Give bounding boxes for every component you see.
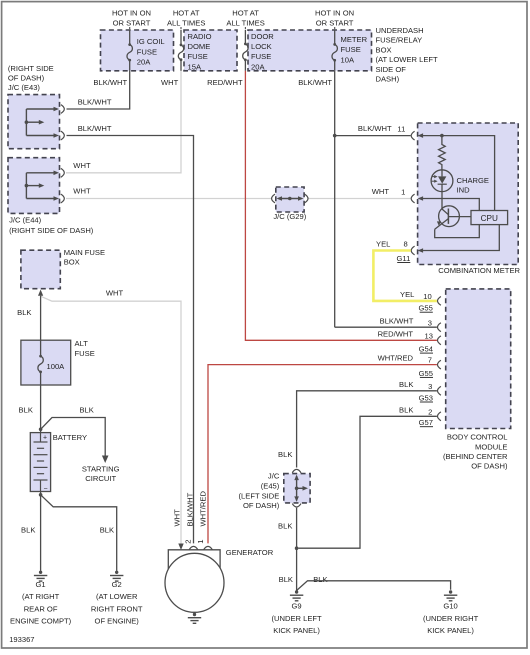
ground G1	[39, 571, 42, 574]
svg-text:G9: G9	[292, 602, 302, 611]
J/C E45 internal arrows	[296, 476, 298, 501]
meter pin 11 terminal arrow	[418, 133, 424, 138]
ground G9	[295, 590, 298, 593]
wire BLK/WHT into BCM pin 3	[335, 326, 437, 328]
svg-text:G1: G1	[36, 580, 46, 589]
svg-text:G54: G54	[419, 345, 433, 354]
svg-text:FUSE: FUSE	[341, 45, 361, 54]
svg-text:1: 1	[196, 540, 205, 544]
svg-text:BOX: BOX	[376, 45, 392, 54]
svg-text:WHT: WHT	[173, 509, 182, 527]
wire BLK from BCM pin 2 to ground junction	[298, 416, 437, 548]
svg-text:FUSE: FUSE	[75, 349, 95, 358]
svg-text:CPU: CPU	[481, 214, 498, 223]
junction dot battery negative	[39, 493, 43, 497]
svg-text:HOT IN ON: HOT IN ON	[315, 8, 354, 17]
dashed leader to METER fuse	[334, 27, 336, 31]
svg-text:RED/WHT: RED/WHT	[378, 329, 414, 338]
svg-text:BLK/WHT: BLK/WHT	[298, 78, 332, 87]
svg-text:IG COIL: IG COIL	[137, 37, 165, 46]
svg-text:BLK/WHT: BLK/WHT	[380, 316, 414, 325]
junction dot battery positive	[39, 428, 43, 432]
meter pin 11 socket	[411, 131, 414, 140]
svg-text:HOT AT: HOT AT	[173, 8, 200, 17]
svg-text:G10: G10	[443, 602, 457, 611]
svg-text:2: 2	[428, 407, 432, 416]
svg-text:100A: 100A	[47, 362, 66, 371]
BCM pin 3 socket (BLK G53)	[438, 386, 441, 395]
svg-text:KICK PANEL): KICK PANEL)	[273, 626, 320, 635]
svg-text:BODY CONTROL: BODY CONTROL	[447, 433, 508, 442]
svg-text:DOME: DOME	[188, 42, 211, 51]
fuse DOOR LOCK 20A	[244, 30, 246, 44]
svg-text:OF DASH): OF DASH)	[243, 501, 280, 510]
wire BLK branch to G10	[297, 581, 451, 591]
svg-text:BLK: BLK	[399, 380, 413, 389]
svg-text:J/C: J/C	[268, 471, 280, 480]
ALT FUSE box	[21, 340, 71, 385]
junction connector J/C E43 box	[8, 95, 60, 149]
svg-text:J/C (G29): J/C (G29)	[273, 212, 306, 221]
battery	[30, 433, 50, 492]
svg-text:BLK: BLK	[19, 406, 33, 415]
wire BLK/WHT from METER fuse: junction and feed to meter pin 11 and BCM pin 3	[334, 71, 336, 327]
svg-text:BLK/WHT: BLK/WHT	[78, 98, 112, 107]
svg-text:WHT: WHT	[372, 187, 390, 196]
svg-text:2: 2	[184, 540, 193, 544]
svg-text:20A: 20A	[251, 62, 265, 71]
svg-text:BLK: BLK	[399, 405, 413, 414]
generator WHT input arrow	[178, 544, 183, 551]
transistor (charge ind driver)	[441, 192, 443, 209]
wire BLK from J/C E45 to ground junction and G9	[296, 508, 298, 592]
svg-text:G55: G55	[419, 369, 433, 378]
svg-text:G11: G11	[397, 254, 411, 263]
main fuse box	[21, 250, 60, 289]
generator pin 1 socket	[204, 546, 213, 549]
svg-text:(AT LOWER LEFT: (AT LOWER LEFT	[376, 55, 439, 64]
wire BLK from BCM pin 3 to J/C E45	[297, 391, 437, 468]
svg-text:WHT: WHT	[73, 187, 91, 196]
BCM pin 7 socket (WHT/RED)	[438, 360, 441, 369]
J/C G29 internal double arrow	[279, 198, 302, 200]
meter pin 8 socket	[411, 246, 414, 255]
svg-text:−: −	[44, 486, 48, 493]
J/C E43 internal bus	[25, 109, 27, 136]
wire BLK branch to starting circuit	[41, 418, 106, 456]
wire WHT from main fuse box feed to generator	[41, 296, 181, 543]
svg-text:10A: 10A	[341, 55, 355, 64]
svg-text:ALL TIMES: ALL TIMES	[226, 18, 264, 27]
ground G2	[115, 571, 118, 574]
wire BLK main fuse box to ALT fuse	[40, 296, 42, 341]
svg-text:193367: 193367	[9, 635, 34, 644]
generator body	[168, 550, 220, 572]
meter pin 1 socket	[411, 194, 414, 203]
J/C E45 top socket	[292, 469, 301, 472]
dashed leader to RADIO DOME fuse	[180, 27, 182, 31]
svg-text:BLK: BLK	[100, 526, 114, 535]
svg-text:BLK/WHT: BLK/WHT	[358, 124, 392, 133]
svg-text:DOOR: DOOR	[251, 32, 274, 41]
body control module box	[446, 289, 511, 429]
J/C G29 left socket	[272, 194, 275, 203]
svg-text:IND: IND	[457, 186, 471, 195]
junction connector J/C G29 box	[276, 187, 304, 212]
arrow into main fuse box	[38, 290, 43, 296]
svg-text:BLK/WHT: BLK/WHT	[186, 492, 195, 526]
svg-text:G57: G57	[419, 418, 433, 427]
svg-text:OF DASH): OF DASH)	[471, 462, 508, 471]
meter internal wire pin 8 to CPU	[421, 225, 499, 251]
svg-text:(UNDER LEFT: (UNDER LEFT	[271, 614, 322, 623]
BCM pin 3 socket (BLK/WHT)	[438, 323, 441, 332]
wire BLK ALT fuse to battery	[40, 385, 42, 433]
svg-text:7: 7	[428, 356, 432, 365]
svg-text:GENERATOR: GENERATOR	[226, 548, 274, 557]
CPU box	[471, 211, 508, 225]
BCM pin 2 socket (BLK G57)	[438, 412, 441, 421]
fuse RADIO DOME 15A	[180, 30, 182, 45]
generator pin 2 socket	[189, 546, 198, 549]
wire BLK/WHT from IG COIL fuse to J/C E43 pin A	[67, 71, 130, 109]
resistor (charge ind feed)	[439, 136, 446, 170]
svg-text:CHARGE: CHARGE	[457, 176, 490, 185]
BCM pin 10 socket	[438, 297, 441, 306]
svg-text:G53: G53	[419, 393, 433, 402]
svg-text:LOCK: LOCK	[251, 42, 272, 51]
svg-text:BLK: BLK	[21, 526, 35, 535]
svg-text:3: 3	[428, 318, 432, 327]
svg-text:HOT IN ON: HOT IN ON	[112, 8, 151, 17]
svg-text:FUSE: FUSE	[188, 52, 208, 61]
svg-text:UNDERDASH: UNDERDASH	[376, 26, 424, 35]
svg-text:MODULE: MODULE	[475, 442, 508, 451]
wire BLK branch to G2	[41, 495, 117, 571]
svg-text:CIRCUIT: CIRCUIT	[85, 474, 116, 483]
svg-text:OF ENGINE): OF ENGINE)	[95, 617, 140, 626]
svg-text:ALT: ALT	[75, 339, 89, 348]
svg-text:(LEFT SIDE: (LEFT SIDE	[239, 491, 280, 500]
svg-text:BLK/WHT: BLK/WHT	[93, 78, 127, 87]
svg-text:G2: G2	[112, 580, 122, 589]
wire YEL from meter pin 8 to BCM pin 10	[373, 251, 437, 301]
svg-text:20A: 20A	[137, 58, 151, 67]
meter internal wire from pin 11 to CPU	[421, 136, 495, 211]
svg-text:8: 8	[403, 239, 407, 248]
svg-text:OF DASH): OF DASH)	[8, 74, 45, 83]
svg-text:RIGHT FRONT: RIGHT FRONT	[91, 604, 143, 613]
svg-text:BATTERY: BATTERY	[53, 433, 87, 442]
meter internal wire pin 1 to transistor emitter	[421, 199, 479, 238]
fuse ALT 100A	[40, 340, 42, 356]
svg-text:(RIGHT SIDE: (RIGHT SIDE	[8, 64, 54, 73]
svg-text:WHT: WHT	[161, 78, 179, 87]
dashed leader to IG COIL fuse	[129, 27, 131, 31]
svg-text:WHT: WHT	[106, 289, 124, 298]
wire WHT from J/C E44 pin B to J/C G29	[66, 198, 271, 200]
J/C G29 right socket	[305, 194, 308, 203]
J/C E45 bottom socket	[292, 504, 301, 507]
svg-text:J/C (E43): J/C (E43)	[8, 83, 41, 92]
svg-text:(AT LOWER: (AT LOWER	[96, 592, 138, 601]
junction connector J/C E45 box	[284, 474, 310, 503]
wire BLK/WHT from J/C E43 pin B to generator pin 2	[67, 136, 194, 544]
svg-text:YEL: YEL	[376, 240, 390, 249]
svg-text:BOX: BOX	[64, 258, 80, 267]
svg-text:BLK: BLK	[278, 521, 292, 530]
LED charge indicator	[431, 170, 453, 192]
svg-text:METER: METER	[341, 35, 368, 44]
svg-text:REAR OF: REAR OF	[24, 604, 58, 613]
svg-text:+: +	[43, 434, 47, 441]
svg-text:STARTING: STARTING	[82, 465, 120, 474]
svg-text:OR START: OR START	[316, 18, 354, 27]
J/C E44 pin A socket	[61, 168, 64, 177]
svg-text:J/C (E44): J/C (E44)	[9, 216, 42, 225]
svg-text:COMBINATION METER: COMBINATION METER	[438, 266, 520, 275]
svg-text:BLK: BLK	[79, 406, 93, 415]
svg-text:(BEHIND CENTER: (BEHIND CENTER	[443, 452, 508, 461]
wire WHT/RED from BCM pin 7 to generator pin 1	[208, 365, 437, 544]
svg-text:OR START: OR START	[113, 18, 151, 27]
fuse METER 10A	[334, 30, 336, 44]
svg-text:BLK: BLK	[279, 575, 293, 584]
svg-text:10: 10	[423, 292, 431, 301]
svg-text:MAIN FUSE: MAIN FUSE	[64, 248, 105, 257]
svg-text:FUSE/RELAY: FUSE/RELAY	[376, 36, 423, 45]
wire WHT from RADIO DOME FUSE down to J/C E44 pin A	[66, 71, 181, 173]
wire RED/WHT from DOOR LOCK fuse to BCM pin 13	[245, 71, 437, 341]
svg-text:SIDE OF: SIDE OF	[376, 65, 407, 74]
svg-text:WHT: WHT	[73, 161, 91, 170]
combination meter box	[418, 123, 519, 265]
svg-text:ENGINE COMPT): ENGINE COMPT)	[10, 617, 72, 626]
svg-text:FUSE: FUSE	[137, 47, 157, 56]
svg-text:HOT AT: HOT AT	[232, 8, 259, 17]
wire BLK battery to G1	[40, 492, 42, 571]
svg-text:(UNDER RIGHT: (UNDER RIGHT	[423, 614, 479, 623]
svg-text:WHT/RED: WHT/RED	[378, 354, 414, 363]
J/C E44 pin B socket	[61, 194, 64, 203]
svg-text:(AT RIGHT: (AT RIGHT	[22, 592, 60, 601]
svg-text:YEL: YEL	[400, 290, 414, 299]
underdash fuse/relay box segment 1 (IG COIL FUSE)	[101, 30, 174, 71]
svg-text:(RIGHT SIDE OF DASH): (RIGHT SIDE OF DASH)	[9, 226, 94, 235]
BCM pin 13 socket (RED/WHT)	[438, 336, 441, 345]
svg-text:DASH): DASH)	[376, 75, 400, 84]
wire WHT from J/C G29 to combination meter pin 1	[308, 198, 411, 200]
J/C E44 internal bus	[25, 173, 27, 199]
svg-text:BLK: BLK	[17, 308, 31, 317]
dashed leader to DOOR LOCK fuse	[244, 27, 246, 31]
svg-text:3: 3	[428, 382, 432, 391]
svg-text:BLK: BLK	[278, 450, 292, 459]
svg-text:KICK PANEL): KICK PANEL)	[427, 626, 474, 635]
svg-text:BLK/WHT: BLK/WHT	[78, 124, 112, 133]
meter pin 8 terminal arrow	[418, 248, 424, 253]
svg-text:RADIO: RADIO	[188, 32, 212, 41]
meter pin 1 terminal arrow	[418, 196, 424, 201]
svg-text:WHT/RED: WHT/RED	[198, 491, 207, 527]
svg-text:11: 11	[397, 124, 405, 133]
svg-text:13: 13	[425, 331, 433, 340]
ground G10	[449, 590, 452, 593]
fuse IG COIL 20A	[129, 30, 131, 45]
svg-text:G55: G55	[418, 304, 432, 313]
underdash fuse/relay box segment 2 (RADIO DOME FUSE)	[184, 30, 237, 71]
J/C E43 pin A socket	[61, 105, 64, 114]
svg-text:BLK: BLK	[313, 575, 327, 584]
svg-text:15A: 15A	[188, 62, 202, 71]
svg-text:1: 1	[401, 187, 405, 196]
generator case ground	[194, 612, 196, 614]
J/C E43 pin B socket	[61, 131, 64, 140]
svg-text:RED/WHT: RED/WHT	[207, 78, 243, 87]
junction connector J/C E44 box	[8, 158, 60, 214]
svg-text:FUSE: FUSE	[251, 52, 271, 61]
svg-text:ALL TIMES: ALL TIMES	[167, 18, 205, 27]
underdash fuse/relay box segment 3 (DOOR LOCK + METER FUSE)	[248, 30, 372, 71]
svg-text:(E45): (E45)	[261, 481, 280, 490]
